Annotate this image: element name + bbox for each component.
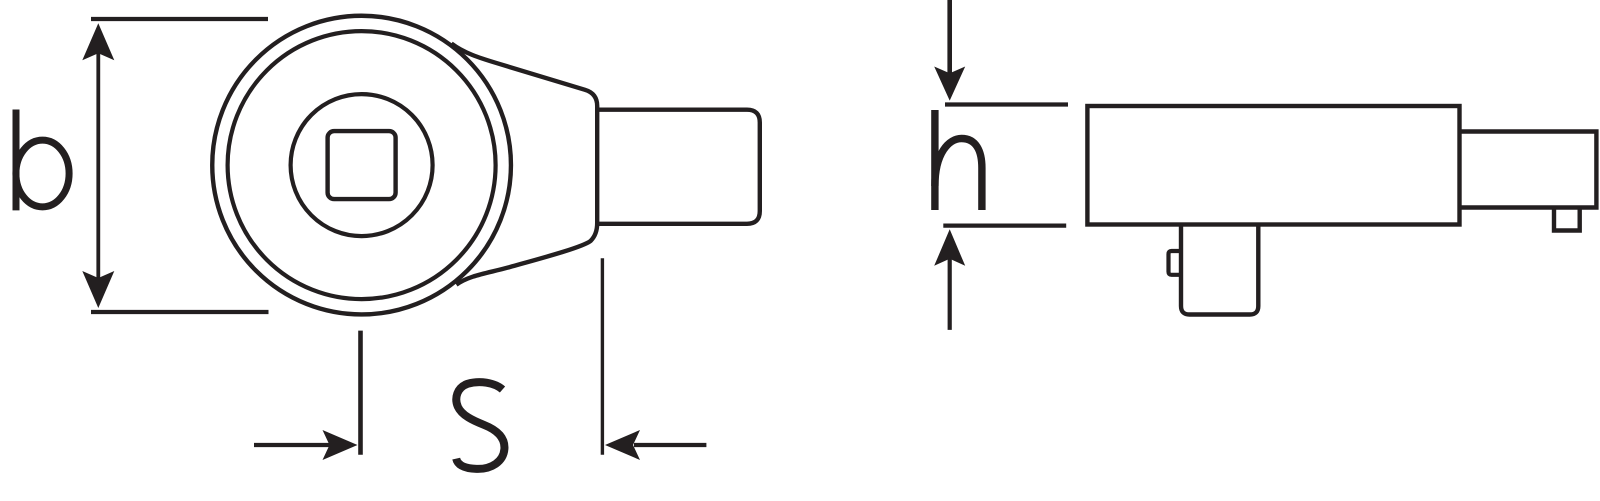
tang extension (side) [1460,132,1597,208]
dimension b: lower arrowhead [82,271,114,308]
dimension h: upper arrow shaft from canvas top [947,0,952,74]
dimension h: lower arrowhead pointing up [934,229,965,265]
dimension S: right arrowhead pointing left [605,430,640,460]
body rectangle [1087,106,1459,225]
square drive hub (side) [1181,225,1258,315]
dimension b: bottom extension line [91,310,269,314]
letter S [456,382,504,469]
small stop tab under tang [1554,207,1580,231]
letter b [16,110,69,211]
boss circle around square hole [291,94,433,236]
dimension S: left arrow shaft [254,443,330,447]
dimension b: top extension line [91,17,268,21]
dimension b: upper arrowhead [82,23,114,60]
dimension S: left arrowhead pointing right [323,430,358,460]
dimension h: top extension line [945,102,1068,106]
square drive hole [328,131,396,199]
tang rectangle (square drive insert shank) [597,110,760,224]
dimension h: lower arrow shaft [948,258,952,330]
dimension S: extension line from square centre [358,331,363,455]
dimension h: upper arrowhead pointing down [934,67,965,101]
neck joining head to tang [451,44,597,285]
detent pin on hub [1169,251,1182,275]
dimension S: right arrow shaft [634,443,706,447]
dimension b: vertical arrow shaft [96,52,100,279]
inner ring circle [228,31,496,299]
dimension S: extension line from tang left edge [601,258,604,455]
dimension h: bottom extension line [943,224,1066,228]
outer circle of head [212,16,511,315]
letter h [935,110,982,210]
